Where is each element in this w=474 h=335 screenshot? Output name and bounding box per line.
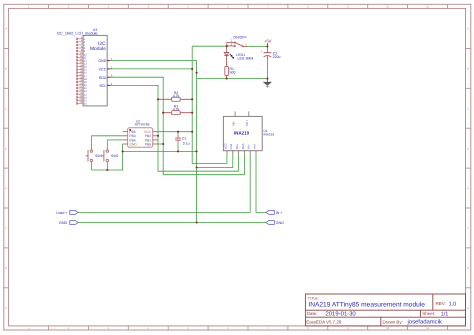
frame ticks left xyxy=(4,48,9,287)
svg-text:TITLE:: TITLE: xyxy=(308,297,319,301)
LED1 xyxy=(224,46,233,58)
frame ticks right xyxy=(466,48,471,287)
U2 pin PB5 xyxy=(123,130,136,134)
svg-text:SDA: SDA xyxy=(99,76,107,80)
svg-text:E: E xyxy=(467,187,469,190)
+5V power symbol xyxy=(264,39,272,47)
U1 bottom pin VCC xyxy=(223,143,227,155)
svg-text:C: C xyxy=(5,107,7,110)
U1 top pin Vin+ (nc) xyxy=(245,111,249,126)
svg-text:H: H xyxy=(467,307,469,310)
U2 pin PB0 xyxy=(145,142,158,146)
junction R2 left on SCL rail xyxy=(157,98,159,100)
junction INA219 Gnd branch on V2 xyxy=(196,166,198,168)
svg-text:Date:: Date: xyxy=(307,311,318,316)
svg-text:VCC: VCC xyxy=(223,143,227,149)
svg-text:1.0: 1.0 xyxy=(449,302,457,308)
U3 right pin 3 SDA xyxy=(99,74,113,80)
svg-text:A: A xyxy=(467,28,469,31)
svg-text:Drawn By:: Drawn By: xyxy=(383,320,403,325)
svg-text:0.1u: 0.1u xyxy=(183,141,190,145)
svg-text:GND: GND xyxy=(98,59,107,63)
svg-text:+5V: +5V xyxy=(264,39,272,44)
junction C1 bottom on ground rail xyxy=(177,150,179,152)
svg-text:GND: GND xyxy=(276,221,285,225)
U1 bottom pin Gnd xyxy=(229,144,233,155)
svg-text:Vin-: Vin- xyxy=(232,121,236,126)
junction R2 right on VCC rail xyxy=(191,98,193,100)
frame ticks bottom xyxy=(49,326,448,330)
U1 bottom pin Vin- xyxy=(247,144,251,155)
svg-text:SW1: SW1 xyxy=(95,154,103,158)
svg-text:B: B xyxy=(467,68,469,71)
wire ground rail under C1 xyxy=(123,150,197,152)
svg-text:GND: GND xyxy=(129,142,137,146)
junction R3 right on VCC rail xyxy=(191,112,193,114)
U1 bottom pin SDA xyxy=(241,143,245,154)
junction GND rail V2 joint xyxy=(196,72,198,74)
pushbutton SW1 xyxy=(86,136,123,170)
wire VCC vertical rail V1 xyxy=(192,46,227,163)
U1 bottom pin Vin+ xyxy=(252,143,256,155)
svg-text:Module: Module xyxy=(90,46,106,52)
svg-text:D: D xyxy=(467,147,469,150)
resistor R1 wire bottom xyxy=(226,76,228,79)
svg-text:1/1: 1/1 xyxy=(441,310,449,317)
frame column numbers bottom xyxy=(28,327,430,330)
svg-text:26: 26 xyxy=(79,101,82,104)
svg-text:IN +: IN + xyxy=(276,211,283,215)
svg-text:SDA: SDA xyxy=(241,143,245,149)
frame column numbers top xyxy=(28,6,430,9)
frame row letters left xyxy=(5,28,7,310)
svg-text:4.7k: 4.7k xyxy=(173,108,180,112)
ground symbol xyxy=(263,79,272,88)
U3 right pin 2 VCC xyxy=(99,65,113,71)
U2 pin PB3 xyxy=(123,134,136,138)
frame row letters right xyxy=(467,28,469,310)
resistor R1 body xyxy=(225,67,229,76)
svg-text:D: D xyxy=(5,147,7,150)
svg-text:Gnd: Gnd xyxy=(229,144,233,150)
svg-text:I2C_1602_LCD_module: I2C_1602_LCD_module xyxy=(57,32,98,36)
junction U2 VCC wire on VCC rail xyxy=(191,131,193,133)
junction C2 bottom / ground symbol xyxy=(266,78,268,80)
ATTiny85 U2 body xyxy=(128,128,153,148)
U2 pin PB4 xyxy=(123,138,136,142)
svg-text:SW2: SW2 xyxy=(111,154,119,158)
svg-text:Sheet:: Sheet: xyxy=(422,311,435,316)
U3 left pins 5-26 with no-connect X marks xyxy=(76,37,87,106)
svg-text:Vin+: Vin+ xyxy=(252,143,256,149)
U3 right pin 4 SCL xyxy=(99,82,113,88)
wire U2 GND down to ground rail and switches xyxy=(91,144,122,170)
svg-text:A: A xyxy=(5,28,7,31)
svg-text:G: G xyxy=(467,267,469,270)
svg-text:josefadamcik: josefadamcik xyxy=(407,319,442,326)
svg-text:Vin+: Vin+ xyxy=(245,120,249,126)
ON/OFF slide switch SW3 xyxy=(227,39,248,48)
junction C1 top on VCC wire xyxy=(177,131,179,133)
svg-text:E: E xyxy=(5,187,7,190)
U2 pin PB2 xyxy=(145,134,158,138)
wire SDA net from U3 pin3 xyxy=(110,77,244,175)
resistor R1 wire top xyxy=(226,56,228,67)
wire bottom GND line xyxy=(78,222,266,224)
wire switched VCC to rail V1 xyxy=(192,45,227,47)
resistor R2 body xyxy=(172,97,181,101)
junction U2 GND on ground rail xyxy=(122,150,124,152)
svg-text:H: H xyxy=(5,307,7,310)
connector flag GND right xyxy=(266,221,284,226)
wire switch common to +5V xyxy=(244,45,248,47)
resistor R2 (SCL pullup) wire xyxy=(158,98,192,100)
wire U1 Vin+ down to IN+ flag xyxy=(256,155,266,213)
svg-text:SCL: SCL xyxy=(235,143,239,149)
svg-text:B: B xyxy=(5,68,7,71)
junction U2 PB0 on SDA rail xyxy=(162,143,164,145)
I2C LCD module U3 body xyxy=(83,35,107,106)
resistor R3 (SDA pullup) wire xyxy=(163,112,192,114)
connector flag IN+ xyxy=(266,210,283,215)
svg-text:REV:: REV: xyxy=(436,301,446,306)
wire GND net from U3 pin1 xyxy=(110,61,196,223)
connector flag Load+ xyxy=(56,210,78,215)
junction R1 bottom on ground rail xyxy=(225,78,227,80)
U2 pin VCC xyxy=(144,130,158,134)
svg-text:C: C xyxy=(467,107,469,110)
pushbutton SW2 xyxy=(102,140,123,170)
svg-text:INA219: INA219 xyxy=(264,133,275,137)
svg-text:ON/OFF: ON/OFF xyxy=(233,35,246,39)
svg-text:220u: 220u xyxy=(273,55,281,59)
svg-text:4.7k: 4.7k xyxy=(173,94,180,98)
U2 pin GND xyxy=(123,142,138,146)
svg-text:Load +: Load + xyxy=(56,211,67,215)
wire U2 VCC to VCC rail xyxy=(158,131,193,133)
capacitor C2 xyxy=(261,46,272,78)
svg-text:G: G xyxy=(5,267,7,270)
title block xyxy=(305,294,465,326)
svg-text:GND: GND xyxy=(59,221,68,225)
resistor R3 body xyxy=(172,111,181,115)
svg-text:500: 500 xyxy=(230,70,236,74)
svg-text:PB0: PB0 xyxy=(145,142,151,146)
svg-text:LED-3MM: LED-3MM xyxy=(238,57,254,61)
junction V2 on bottom GND line xyxy=(196,221,198,223)
wire GND branch to INA219 Gnd pin xyxy=(197,155,233,168)
wire U2 PB0 to SDA rail xyxy=(158,143,164,145)
connector flag GND left xyxy=(59,221,78,226)
U1 bottom pin SCL xyxy=(235,143,239,154)
svg-text:INA219 ATTiny85 measurement mo: INA219 ATTiny85 measurement module xyxy=(308,302,425,309)
svg-text:ATTINY85: ATTINY85 xyxy=(135,123,150,127)
wire GND branch rail to ground symbol xyxy=(197,78,268,80)
wire SCL net from U3 pin4 xyxy=(110,85,238,171)
svg-text:+: + xyxy=(261,49,263,53)
U3 right pin 1 GND xyxy=(98,57,113,63)
frame ticks top xyxy=(49,4,448,8)
svg-text:EasyEDA V5.7.26: EasyEDA V5.7.26 xyxy=(306,320,341,325)
wire U1 Vin- down to Load+ line xyxy=(78,155,250,213)
wire VCC net from U3 pin2 xyxy=(110,68,192,70)
U1 top pin Vin- (nc) xyxy=(232,111,236,126)
junction R3 left on SDA rail xyxy=(162,112,164,114)
junction VCC rail / LCD VCC pin2 xyxy=(191,68,193,70)
svg-text:C1: C1 xyxy=(182,137,187,141)
capacitor C1 xyxy=(175,132,181,152)
junction U2 PB2 on SCL rail xyxy=(157,135,159,137)
svg-text:SCL: SCL xyxy=(99,84,106,88)
junction switched-VCC at switch left xyxy=(226,45,228,47)
junction SW2 bottom on switch rail xyxy=(106,169,108,171)
junction ground rail on V2 xyxy=(196,150,198,152)
svg-text:VCC: VCC xyxy=(99,68,107,72)
INA219 U1 body xyxy=(223,116,262,150)
svg-text:Vin-: Vin- xyxy=(247,144,251,149)
U2 pin PB1 xyxy=(145,138,158,142)
junction +5V node xyxy=(266,45,268,47)
svg-text:2019-01-30: 2019-01-30 xyxy=(326,310,357,317)
svg-text:INA219: INA219 xyxy=(234,130,250,135)
